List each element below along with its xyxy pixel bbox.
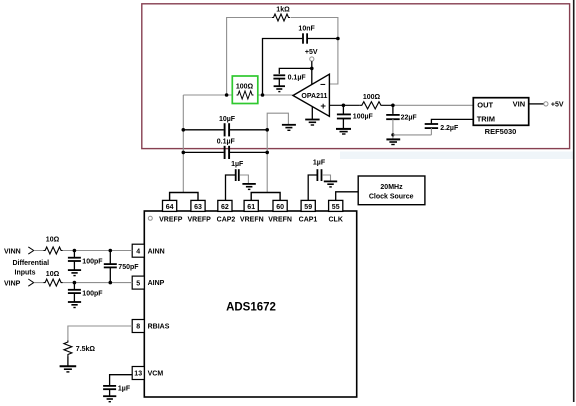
- svg-text:AINP: AINP: [148, 280, 165, 287]
- svg-text:100pF: 100pF: [82, 290, 103, 297]
- svg-text:100Ω: 100Ω: [363, 94, 381, 101]
- wire: cap1 1uF to ground: [322, 175, 330, 181]
- pin 64 box: [163, 200, 177, 211]
- svg-text:8: 8: [136, 324, 140, 331]
- svg-text:55: 55: [332, 204, 340, 211]
- resistor 1kOhm: [272, 14, 290, 21]
- pin 1 indicator: [148, 216, 152, 220]
- capacitor 100pF (AINP): [73, 283, 75, 290]
- svg-text:2.2µF: 2.2µF: [440, 125, 459, 132]
- ground (op-amp decoupling): [274, 86, 285, 91]
- svg-text:63: 63: [194, 204, 202, 211]
- wire: 0.1uF decoupling branch: [279, 68, 312, 74]
- pin 55 box: [329, 200, 343, 211]
- svg-text:+: +: [320, 101, 326, 112]
- svg-text:64: 64: [166, 204, 174, 211]
- svg-text:10µF: 10µF: [219, 116, 236, 123]
- svg-text:VCM: VCM: [148, 371, 164, 378]
- node: AINP / 750pF: [109, 281, 113, 285]
- node: junction feedback / inverting input: [336, 37, 340, 41]
- wire: bracket pins 64/63 (VREFP): [170, 193, 198, 201]
- capacitor 0.1uF (reference): [183, 151, 267, 153]
- svg-text:+5V: +5V: [305, 49, 318, 56]
- input connector VINP: [28, 279, 33, 286]
- pin 5 box: [132, 276, 144, 289]
- wire: VIN to +5V: [529, 103, 544, 105]
- node: junction output rail / 1k: [225, 93, 229, 97]
- pin 59 box: [301, 200, 315, 211]
- svg-text:1µF: 1µF: [118, 385, 131, 392]
- wire: VREFN rail to ground jog: [267, 113, 288, 192]
- input connector VINN: [28, 247, 33, 254]
- wire: VREFP rail down to pins 64/63: [182, 95, 184, 193]
- capacitor 750pF (differential): [109, 251, 111, 264]
- node: junction output rail / 10nF: [261, 93, 265, 97]
- svg-text:13: 13: [134, 371, 142, 378]
- svg-text:REF5030: REF5030: [485, 127, 517, 136]
- ground (VCM 1uF): [103, 396, 116, 402]
- svg-text:CAP1: CAP1: [299, 216, 318, 223]
- resistor 100 Ohm in green box: [232, 76, 257, 104]
- wire: 10nF branch: [263, 39, 338, 96]
- node: AINN / 750pF: [109, 249, 113, 253]
- svg-text:VREFP: VREFP: [188, 216, 212, 223]
- wire: cap2 1uF to ground: [240, 175, 249, 184]
- wire: trim cap to ground node: [393, 134, 432, 136]
- svg-text:Differential: Differential: [13, 260, 50, 267]
- node: 0.1uF right: [265, 151, 269, 155]
- IC REF5030: [473, 98, 528, 126]
- svg-text:100Ω: 100Ω: [236, 83, 254, 90]
- svg-text:VINP: VINP: [4, 281, 21, 288]
- node: AINP / 100pF: [73, 281, 77, 285]
- node: junction supply / 0.1uF: [310, 67, 314, 71]
- wire: 0.1uF to ground: [278, 79, 280, 86]
- svg-text:10Ω: 10Ω: [46, 271, 60, 278]
- wire: bracket pins 61/60 (VREFN): [251, 193, 280, 201]
- pin 62 box: [218, 200, 232, 211]
- svg-text:7.5kΩ: 7.5kΩ: [76, 346, 96, 353]
- svg-text:10nF: 10nF: [298, 26, 315, 33]
- ground (100uF): [336, 129, 351, 134]
- wire: CLK to clock source: [336, 192, 359, 201]
- svg-text:10Ω: 10Ω: [46, 236, 60, 243]
- capacitor 100pF (AINN): [73, 251, 75, 258]
- svg-text:60: 60: [276, 204, 284, 211]
- wire: non-inverting input rail: [329, 104, 393, 106]
- pin 4 box: [132, 244, 144, 257]
- resistor 7.5kOhm (RBIAS): [64, 340, 72, 356]
- wire: RBIAS: [68, 326, 132, 340]
- wire: 7.5k to ground: [67, 356, 69, 366]
- svg-text:CLK: CLK: [329, 216, 343, 223]
- highlight band: [340, 152, 573, 160]
- capacitor 1uF (VCM): [103, 385, 116, 387]
- pin 60 box: [273, 200, 287, 211]
- wire: VCM: [110, 375, 133, 386]
- ground (22uF): [386, 139, 400, 144]
- ground (RBIAS): [60, 366, 77, 372]
- svg-text:VIN: VIN: [513, 100, 526, 109]
- svg-text:TRIM: TRIM: [477, 115, 495, 124]
- svg-text:+5V: +5V: [551, 102, 564, 109]
- svg-text:61: 61: [247, 204, 255, 211]
- wire: +5V to op-amp supply: [311, 61, 313, 84]
- node: 0.1uF left: [182, 151, 186, 155]
- wire: VINN to AINN: [34, 250, 132, 252]
- capacitor 100uF: [342, 105, 344, 114]
- terminal +5V (REF5030 VIN): [544, 102, 548, 106]
- node: junction 100uF: [342, 104, 346, 108]
- svg-text:4: 4: [136, 248, 140, 255]
- svg-text:62: 62: [221, 204, 229, 211]
- svg-text:100pF: 100pF: [82, 258, 103, 265]
- svg-text:VREFN: VREFN: [240, 216, 264, 223]
- svg-text:VREFP: VREFP: [159, 216, 183, 223]
- svg-text:AINN: AINN: [148, 248, 165, 255]
- svg-text:−: −: [320, 79, 326, 90]
- ground (cap2 1uF): [242, 184, 255, 190]
- wire: op-amp ground pin: [311, 107, 313, 120]
- node: 10uF left: [182, 128, 186, 132]
- svg-text:VREFN: VREFN: [268, 216, 292, 223]
- svg-text:RBIAS: RBIAS: [148, 324, 170, 331]
- svg-text:OUT: OUT: [477, 101, 493, 110]
- op-amp U1 OPA211: [293, 74, 329, 116]
- svg-text:Clock Source: Clock Source: [369, 194, 414, 201]
- svg-text:5: 5: [136, 280, 140, 287]
- svg-text:ADS1672: ADS1672: [226, 302, 276, 314]
- ground (100pF AINP): [68, 302, 81, 308]
- svg-text:1µF: 1µF: [313, 160, 326, 167]
- pin 61 box: [244, 200, 258, 211]
- capacitor 10uF (reference): [183, 129, 267, 131]
- svg-text:20MHz: 20MHz: [380, 184, 403, 191]
- ground (op-amp): [305, 120, 319, 126]
- node: 10uF right: [265, 128, 269, 132]
- capacitor 0.1uF (op-amp decoupling): [273, 74, 285, 76]
- wire: REF5030 OUT to filter: [393, 104, 473, 106]
- node: junction 22uF: [391, 104, 395, 108]
- svg-text:VINN: VINN: [4, 249, 21, 256]
- red analysis box: [142, 4, 570, 149]
- capacitor 2.2uF (TRIM): [425, 123, 438, 125]
- svg-text:OPA211: OPA211: [301, 93, 327, 100]
- resistor 10 Ohm (VINN): [44, 247, 63, 254]
- svg-text:0.1µF: 0.1µF: [288, 74, 307, 81]
- node: AINN / 100pF: [73, 249, 77, 253]
- svg-text:22µF: 22µF: [401, 115, 418, 122]
- ground (VREFN): [282, 125, 296, 131]
- svg-text:59: 59: [304, 204, 312, 211]
- wire: 1k feedback loop right + inverting input: [291, 18, 338, 85]
- resistor 100 Ohm (reference filter): [360, 102, 383, 109]
- svg-text:750pF: 750pF: [118, 264, 139, 271]
- svg-text:1kΩ: 1kΩ: [276, 6, 290, 13]
- resistor 10 Ohm (VINP): [44, 279, 63, 286]
- image right border: [573, 0, 575, 402]
- pin 63 box: [191, 200, 205, 211]
- svg-text:0.1µF: 0.1µF: [217, 138, 236, 145]
- wire: 1k feedback loop left/top: [227, 18, 272, 96]
- ground (100pF AINN): [68, 270, 81, 276]
- pin 13 box: [132, 367, 144, 380]
- capacitor 22uF: [392, 105, 394, 114]
- node: junction 22uF ground / trim cap: [391, 133, 394, 136]
- wire: VREFP output rail: [183, 94, 293, 96]
- svg-text:100µF: 100µF: [353, 113, 374, 120]
- ground (cap1 1uF): [324, 181, 337, 187]
- pin 8 box: [132, 320, 144, 333]
- svg-text:Inputs: Inputs: [15, 270, 36, 277]
- clock source box: [358, 176, 425, 205]
- svg-text:1µF: 1µF: [231, 161, 244, 168]
- IC ADS1672 body: [144, 211, 356, 397]
- capacitor 10nF: [302, 33, 304, 43]
- wire: VINP to AINP: [34, 282, 132, 284]
- svg-text:CAP2: CAP2: [217, 216, 236, 223]
- wire: TRIM pin: [431, 119, 473, 123]
